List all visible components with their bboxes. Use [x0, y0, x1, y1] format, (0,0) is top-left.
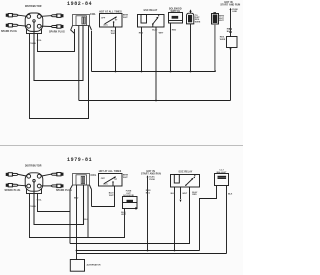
solenoid switch S2 box: [169, 13, 183, 24]
fuse block FB box: [123, 197, 138, 209]
ignition switch S1 box: [100, 14, 123, 28]
svg-text:WHT: WHT: [182, 193, 187, 195]
svg-text:OFF: OFF: [101, 18, 106, 20]
svg-text:WHT: WHT: [123, 177, 128, 179]
svg-text:WHT: WHT: [111, 33, 116, 35]
wire R1 to bus2: [230, 48, 232, 101]
svg-text:OFF: OFF: [101, 178, 106, 180]
svg-text:1982-84: 1982-84: [67, 1, 92, 7]
coil C2 inner leads: [77, 185, 84, 260]
spark plug P7 (upper right): [51, 173, 63, 176]
svg-text:START AND RUN: START AND RUN: [141, 172, 161, 175]
arrow to dist: [180, 200, 182, 203]
wire H_b bus: [77, 250, 200, 252]
svg-text:BLU: BLU: [171, 193, 176, 195]
wire K2 left to bus: [174, 187, 176, 251]
switch S3 contact arm: [104, 177, 116, 184]
spark plug P8 (lower right): [51, 184, 63, 187]
node below R1: [230, 48, 232, 50]
svg-text:DISTRIBUTOR: DISTRIBUTOR: [25, 6, 42, 8]
fuse element: [127, 200, 134, 203]
svg-text:COIL: COIL: [91, 175, 97, 177]
relay K1 coil: [141, 15, 147, 24]
resistance wire R1 box: [227, 37, 238, 48]
node bus1 junctions: [115, 71, 117, 73]
wire P1 to cap: [18, 15, 27, 16]
svg-text:ESC RELAY: ESC RELAY: [144, 9, 158, 12]
wire P4 to cap: [41, 25, 51, 27]
wire dist to coil negative: [34, 22, 83, 80]
wire S2 to bus1: [170, 23, 172, 72]
node fuse corner: [135, 207, 137, 209]
svg-text:COIL: COIL: [90, 14, 96, 16]
fuse link F2 arrow: [147, 175, 149, 177]
battery/alternator box: [70, 260, 84, 272]
svg-text:FUSE: FUSE: [149, 179, 155, 181]
wire dist2 tach lead to fuse: [30, 194, 125, 238]
svg-text:BLU: BLU: [74, 198, 79, 200]
ESC relay K2 box: [171, 175, 200, 188]
wire K2 right: [189, 187, 191, 244]
svg-text:WHT: WHT: [159, 33, 164, 35]
connector J1 pin with arrow: [190, 11, 192, 13]
ballast resistor R2 box: [215, 174, 229, 186]
svg-text:BLU: BLU: [146, 192, 151, 194]
wire J1 to bus1: [190, 24, 192, 72]
coil C2 cap: [73, 174, 90, 186]
wire dist2 to coil left / main feed: [38, 194, 71, 212]
coil C2 terminals: [81, 176, 82, 184]
distributor D2 cap: [25, 173, 43, 191]
wire P5 to cap: [18, 174, 27, 176]
distributor D2 body: [27, 180, 42, 194]
svg-text:WIRE: WIRE: [195, 21, 201, 23]
spark plug P2 (lower left): [6, 24, 18, 27]
wire P2 to cap: [18, 24, 27, 27]
wire K2 middle stub: [180, 187, 182, 199]
wire H_a ground run: [70, 187, 190, 244]
bus2 wire: [79, 100, 231, 102]
coil C1 cap: [73, 15, 90, 26]
coil C1 inner leads: [79, 26, 83, 101]
ignition switch S3 box: [99, 174, 123, 187]
node H_b junctions: [76, 250, 78, 252]
svg-text:SPARK PLUG: SPARK PLUG: [49, 31, 65, 34]
wire R2 left to H_b: [200, 186, 217, 251]
svg-text:RED: RED: [227, 28, 232, 30]
svg-text:RED: RED: [172, 30, 177, 32]
svg-text:ST: ST: [114, 179, 117, 181]
svg-text:SPARK PLUG: SPARK PLUG: [1, 30, 17, 33]
svg-text:SWITCH: SWITCH: [170, 11, 180, 13]
connector J1: [187, 13, 194, 24]
svg-text:ST: ST: [115, 19, 118, 21]
distributor D1 cap: [25, 13, 43, 31]
spark plug P6 (lower left): [6, 184, 18, 187]
wire R2 right to H_c: [226, 186, 228, 254]
wire P3 to cap: [41, 15, 51, 18]
relay K2 contact: [185, 185, 186, 186]
ballast resistor R2 element: [218, 176, 227, 178]
coil C2 body sides: [70, 185, 92, 244]
wire K1 left to bus1: [141, 27, 143, 72]
svg-text:BLU: BLU: [227, 31, 232, 33]
coil C1 shoulders: [71, 26, 92, 34]
distributor D1 terminal posts: [27, 15, 41, 29]
wire coil positive to bus1: [91, 31, 93, 72]
svg-text:1979-81: 1979-81: [67, 157, 92, 163]
wire J2 to bus1 (heavy): [214, 24, 216, 72]
switch S1 contact arm: [105, 17, 117, 24]
wire S1 to bus1: [115, 27, 117, 72]
wire F1 to resistor: [230, 12, 232, 37]
distributor D1 body: [27, 20, 42, 34]
wire K1 right to bus2: [155, 27, 157, 101]
svg-text:WHT: WHT: [121, 214, 126, 216]
connector J2: [212, 14, 219, 25]
svg-text:BLK: BLK: [84, 219, 89, 221]
svg-text:TACH: TACH: [30, 42, 36, 45]
relay K2 coil: [174, 175, 179, 184]
svg-text:BLK: BLK: [228, 194, 233, 196]
svg-text:SPARK PLUG: SPARK PLUG: [5, 189, 21, 192]
svg-text:ACC: ACC: [103, 182, 108, 185]
ESC relay K1 box: [138, 15, 165, 28]
solenoid S2 element: [172, 16, 179, 19]
divider rule: [0, 145, 243, 147]
svg-text:START AND RUN: START AND RUN: [220, 4, 240, 7]
coil C1 terminals: [82, 17, 83, 24]
fuse link F1 arrow: [230, 8, 232, 10]
svg-text:WHT: WHT: [219, 20, 224, 22]
svg-text:RED: RED: [139, 32, 144, 34]
wire dist2 to coil negative: [34, 182, 84, 225]
wire P6 to cap: [18, 184, 27, 187]
svg-text:HOT AT ALL TIMES: HOT AT ALL TIMES: [99, 10, 122, 13]
svg-text:WIRE: WIRE: [220, 39, 226, 41]
spark plug P5 (upper left): [6, 173, 18, 176]
coil C2 shoulders: [70, 185, 92, 190]
wire S3 to coil positive: [92, 186, 115, 207]
svg-text:WHT: WHT: [123, 17, 128, 19]
node bus2 junction: [155, 100, 157, 102]
svg-text:ESC RELAY: ESC RELAY: [179, 170, 193, 173]
bus1 wire: [92, 71, 216, 73]
coil C1 body sides: [75, 26, 89, 119]
wire dist to coil left: [38, 29, 75, 52]
wire P7 to cap: [41, 174, 51, 176]
svg-text:DISTRIBUTOR: DISTRIBUTOR: [25, 166, 42, 168]
svg-text:COIL: COIL: [37, 199, 43, 201]
spark plug P3 (upper right): [51, 14, 63, 17]
svg-text:RED: RED: [192, 194, 197, 196]
relay K1 contact: [152, 24, 154, 27]
svg-text:HOT AT ALL TIMES: HOT AT ALL TIMES: [99, 170, 122, 173]
wire P8 to cap: [41, 185, 51, 187]
svg-text:LINK: LINK: [232, 11, 237, 13]
svg-text:BLK/: BLK/: [152, 29, 157, 31]
svg-text:TACH: TACH: [30, 205, 36, 208]
svg-text:SOLENOID: SOLENOID: [123, 195, 134, 197]
svg-text:ALTERNATOR: ALTERNATOR: [87, 263, 101, 266]
wire H_c bus: [77, 253, 227, 255]
svg-text:BALLAST: BALLAST: [217, 171, 227, 174]
spark plug P4 (lower right): [51, 25, 63, 28]
wire J2 vert joins bus1 right end: [215, 71, 217, 72]
wire F2 to bus: [147, 180, 149, 251]
spark plug P1 (upper left): [6, 14, 18, 17]
wire dist TACH lead: [30, 29, 89, 119]
distributor D2 terminal posts: [27, 174, 41, 188]
svg-text:WHT: WHT: [109, 195, 114, 197]
svg-text:ACC: ACC: [103, 23, 108, 26]
